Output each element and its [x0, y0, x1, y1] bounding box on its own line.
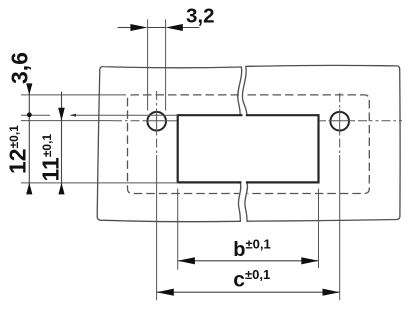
arrow 3,2 right [166, 24, 183, 31]
dimension c [157, 291, 340, 293]
arrow 3,6 top (outside, pointing down) [26, 83, 32, 95]
extension line dashed-rect top edge (3,6 ref) [21, 94, 126, 96]
extension line hole diameter right [165, 19, 167, 110]
dot terminator 12 top [27, 112, 32, 117]
svg-text:3,6: 3,6 [7, 52, 33, 84]
dimension b [178, 260, 318, 262]
arrow b right [301, 257, 318, 264]
mounting plate outline (right half) [246, 65, 400, 221]
arrow 11 bottom (outside, pointing up) [58, 183, 64, 195]
break line bottom-right S-curve [245, 183, 248, 221]
arrow 3,2 left [130, 24, 147, 31]
panel cut-out rectangle (thick) [178, 115, 319, 182]
vertical centerline left hole [156, 91, 158, 109]
hole right (d 3,2) [330, 112, 349, 131]
hole left (d 3,2) [147, 112, 166, 131]
extension lines [21, 19, 319, 269]
dimension 3,2 [118, 27, 200, 29]
extension line cut-out top edge (12 ref) [21, 114, 50, 116]
break line top-right S-curve [242, 66, 246, 115]
arrow 12 bottom (outside, pointing up) [26, 183, 32, 195]
mounting plate outline (broken-out section, left half) [97, 65, 400, 221]
svg-text:3,2: 3,2 [186, 4, 215, 27]
arrow c right [323, 289, 340, 296]
arrow b left [178, 257, 195, 264]
vertical centerline right hole [339, 93, 341, 109]
arrow 11 top (outside, pointing down) [58, 108, 65, 121]
horizontal centerline [21, 91, 404, 300]
arrow c left [157, 289, 174, 296]
extension line cut-out bottom edge (shared ref) [21, 182, 178, 184]
extension line cut-out right edge (b ref) [318, 189, 320, 269]
dimension line 3,6 / 12 (vertical at x=29.3) [28, 84, 30, 191]
break line bottom-left S-curve [238, 183, 240, 221]
dashed flange outline rectangle [128, 95, 370, 194]
extension line hole diameter left [147, 19, 149, 110]
dimension line 11 (vertical at x=61.5) [61, 92, 63, 192]
break line top-left S-curve [238, 67, 242, 115]
extension line cut-out left edge (b ref) [177, 189, 179, 270]
small flare arrow on 12 extension line [70, 114, 76, 117]
